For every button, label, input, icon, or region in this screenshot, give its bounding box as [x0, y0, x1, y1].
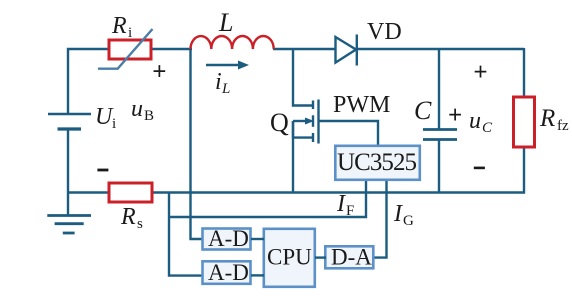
- svg-text:i: i: [215, 69, 222, 95]
- Rs sense line to A-D: [169, 193, 202, 276]
- svg-text:u: u: [131, 96, 143, 122]
- inductor L: [191, 36, 274, 49]
- svg-text:A-D: A-D: [208, 226, 249, 251]
- resistor Rfz: [514, 97, 535, 147]
- svg-text:D-A: D-A: [331, 245, 372, 270]
- wire battery negative to ground: [67, 129, 69, 216]
- box UC3525: [335, 146, 420, 180]
- svg-text:i: i: [112, 116, 116, 132]
- svg-text:+: +: [448, 102, 462, 129]
- svg-text:+: +: [474, 59, 488, 86]
- svg-text:R: R: [120, 204, 136, 230]
- svg-text:PWM: PWM: [333, 92, 390, 118]
- battery Ui: [48, 114, 91, 129]
- svg-text:A-D: A-D: [208, 260, 249, 285]
- wire gate to UC3525: [319, 121, 379, 146]
- svg-text:F: F: [346, 203, 354, 219]
- svg-text:L: L: [218, 8, 233, 37]
- svg-text:R: R: [539, 105, 555, 132]
- svg-text:VD: VD: [367, 19, 402, 45]
- resistor Rs: [109, 183, 152, 202]
- box CPU: [264, 229, 315, 287]
- box A-D lower: [203, 261, 251, 284]
- node A u_B sense line to A-D: [191, 49, 203, 239]
- svg-text:L: L: [221, 81, 230, 97]
- svg-text:i: i: [128, 25, 132, 41]
- wire right rail upper: [523, 48, 525, 97]
- resistor Ri: [109, 40, 151, 59]
- label - (uB): [97, 169, 108, 172]
- wire Ri to node A: [151, 48, 192, 50]
- svg-text:Q: Q: [270, 108, 289, 137]
- svg-text:B: B: [144, 108, 154, 124]
- svg-text:I: I: [393, 201, 403, 227]
- wire diode to top-right corner: [357, 48, 524, 50]
- label - (output): [474, 167, 485, 170]
- svg-text:I: I: [336, 191, 346, 217]
- svg-text:C: C: [482, 120, 493, 136]
- wire right rail lower: [523, 147, 525, 194]
- box D-A: [325, 246, 373, 268]
- wire A-D1 to CPU: [251, 238, 264, 240]
- Ri diagonal (varistor stroke): [98, 29, 153, 69]
- wire L to diode: [273, 48, 336, 50]
- box A-D upper: [203, 229, 251, 250]
- svg-text:G: G: [403, 213, 414, 229]
- wire CPU to D-A: [315, 256, 326, 258]
- arrow iL: [206, 64, 243, 66]
- wire bottom rail: [68, 191, 524, 193]
- svg-text:fz: fz: [557, 118, 569, 134]
- diode VD: [336, 35, 357, 66]
- ground: [47, 216, 91, 234]
- transistor Q (MOSFET): [293, 49, 319, 193]
- svg-text:+: +: [152, 58, 166, 85]
- wire IF feedback: [169, 181, 366, 217]
- wire A-D2 to CPU: [251, 274, 264, 276]
- wire UC3525 to IG / D-A: [373, 181, 387, 258]
- capacitor C: [423, 49, 457, 193]
- svg-text:s: s: [137, 216, 143, 232]
- svg-text:C: C: [414, 96, 432, 125]
- svg-text:u: u: [469, 108, 481, 134]
- svg-text:R: R: [111, 13, 127, 39]
- wire top rail battery to Ri: [68, 49, 109, 114]
- svg-text:UC3525: UC3525: [337, 149, 417, 176]
- svg-text:CPU: CPU: [267, 245, 312, 270]
